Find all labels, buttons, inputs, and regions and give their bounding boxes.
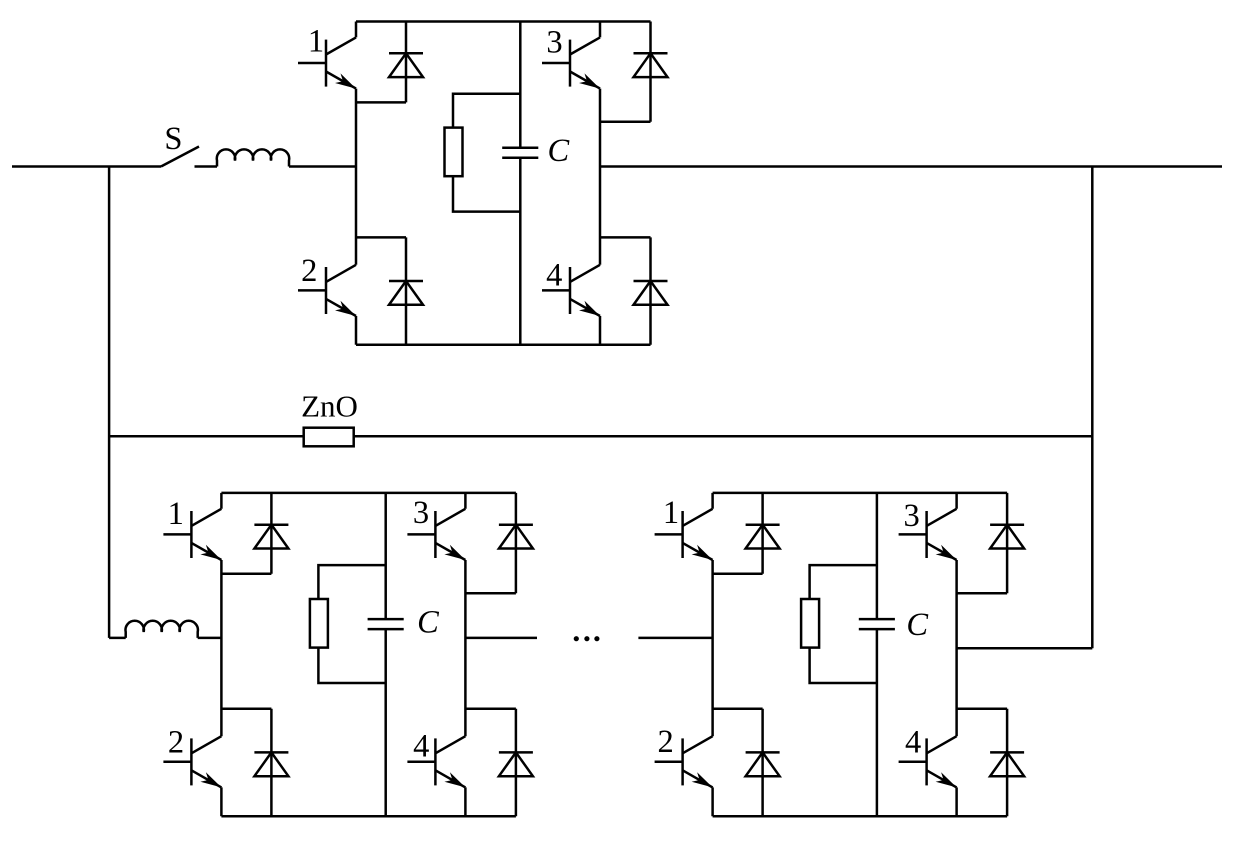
wire: left input bus: [12, 165, 161, 168]
labels: transistor numbers and C, per module: [168, 23, 922, 764]
inductor L1: [217, 149, 289, 166]
svg-text:3: 3: [413, 495, 429, 531]
svg-text:4: 4: [546, 257, 562, 293]
wire: module A output: [465, 637, 537, 640]
svg-text:4: 4: [413, 729, 429, 765]
wire: right bus vertical: [1091, 167, 1094, 649]
H-bridge module bottom-left: [163, 493, 533, 816]
wire: inductor to module: [289, 165, 356, 168]
wire: bottom inductor leads: [109, 637, 221, 640]
svg-text:2: 2: [168, 725, 184, 761]
svg-text:1: 1: [663, 495, 679, 531]
wire: left branch vertical: [108, 167, 111, 638]
wire: switch to inductor: [195, 165, 218, 168]
wire: to module B input: [638, 637, 712, 640]
wire: ZnO branch: [109, 435, 1092, 438]
svg-text:3: 3: [903, 498, 919, 534]
switch S blade: [161, 147, 199, 167]
svg-text:S: S: [164, 121, 182, 157]
svg-text:2: 2: [301, 253, 317, 289]
main wires: [12, 147, 1222, 649]
svg-text:2: 2: [657, 724, 673, 760]
svg-text:4: 4: [905, 725, 921, 761]
wire: module B output to right bus: [957, 647, 1093, 650]
svg-text:1: 1: [308, 23, 324, 59]
ellipsis dots: [574, 636, 600, 641]
H-bridge module top: [298, 22, 668, 345]
inductor L2: [126, 621, 198, 638]
svg-text:1: 1: [168, 496, 184, 532]
svg-text:C: C: [417, 604, 439, 640]
wire: top output bus: [600, 165, 1222, 168]
svg-text:C: C: [906, 607, 928, 643]
H-bridge module bottom-right: [655, 493, 1025, 816]
svg-text:3: 3: [546, 24, 562, 60]
ZnO varistor box: [304, 428, 354, 447]
svg-text:C: C: [548, 133, 570, 169]
svg-text:ZnO: ZnO: [301, 389, 358, 424]
